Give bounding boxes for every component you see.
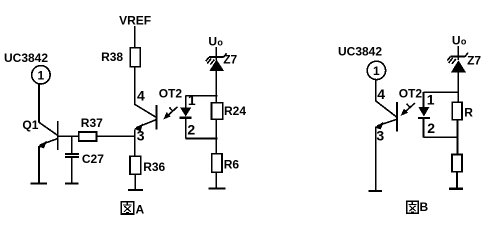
wire R6 to ground xyxy=(215,172,217,188)
svg-text:B: B xyxy=(420,200,429,214)
wire OT2 LED cathode to resistor junction (right bottom) xyxy=(424,136,459,138)
node pin 2 label of OT2 (right) xyxy=(427,120,435,136)
resistor R24 xyxy=(212,103,247,119)
node pin 4 label (left) xyxy=(137,88,145,104)
svg-text:o: o xyxy=(217,38,223,48)
node pin 4 label (right) xyxy=(377,86,385,102)
node pin 2 label of OT2 (left) xyxy=(187,121,195,137)
IC label UC3842 (right) xyxy=(338,45,382,59)
optocoupler OT2 LED (left) xyxy=(180,96,192,139)
resistor R38 xyxy=(101,48,140,67)
wire VREF to R38 xyxy=(134,26,136,48)
wire lower resistor to ground (right) xyxy=(456,172,458,188)
wire OT2 LED cathode to R24/R6 junction (bottom) xyxy=(186,138,218,140)
label Uo (right) xyxy=(452,34,467,48)
label VREF xyxy=(119,14,151,28)
svg-text:2: 2 xyxy=(187,121,195,137)
svg-text:1: 1 xyxy=(373,64,380,78)
resistor (unlabeled, right) xyxy=(452,155,462,172)
svg-text:R: R xyxy=(464,106,473,120)
node pin 1 label of OT2 (right) xyxy=(427,91,435,107)
optocoupler OT2 phototransistor (right) xyxy=(375,101,397,132)
caption 图B xyxy=(407,200,429,214)
wire OT2 LED anode to output rail (top) xyxy=(186,95,218,97)
svg-text:UC3842: UC3842 xyxy=(338,45,382,59)
zener diode Z7 (left) xyxy=(206,47,238,71)
node pin 1 circle (left) xyxy=(32,66,50,84)
ground (R36) xyxy=(128,189,143,191)
wire pin3 node down to R36 xyxy=(134,130,136,157)
svg-text:3: 3 xyxy=(137,127,145,143)
svg-text:U: U xyxy=(452,34,461,48)
wire Q1 emitter to ground xyxy=(38,146,40,183)
node pin 1 label of OT2 (left) xyxy=(188,92,196,108)
ground (phototransistor emitter, right) xyxy=(369,190,383,192)
wire R36 to ground xyxy=(134,174,136,189)
svg-text:UC3842: UC3842 xyxy=(4,51,48,65)
svg-text:R37: R37 xyxy=(81,116,103,130)
node pin 1 circle (right) xyxy=(367,61,385,79)
svg-text:3: 3 xyxy=(376,127,384,143)
resistor R6 xyxy=(212,154,239,173)
svg-text:OT2: OT2 xyxy=(159,86,183,100)
svg-text:1: 1 xyxy=(427,91,435,107)
svg-text:R36: R36 xyxy=(143,160,165,174)
svg-text:R38: R38 xyxy=(101,50,123,64)
node pin 3 label (left) xyxy=(137,127,145,143)
svg-text:1: 1 xyxy=(188,92,196,108)
svg-text:R24: R24 xyxy=(224,104,246,118)
svg-text:Z7: Z7 xyxy=(467,54,481,68)
capacitor C27 xyxy=(65,136,104,166)
IC label UC3842 (left) xyxy=(4,51,48,65)
resistor R xyxy=(452,102,473,120)
svg-text:Q1: Q1 xyxy=(22,118,38,132)
node pin 3 label (right) xyxy=(376,127,384,143)
wire phototransistor emitter to ground (right) xyxy=(375,127,377,191)
svg-text:VREF: VREF xyxy=(119,14,151,28)
svg-text:U: U xyxy=(208,35,217,49)
svg-text:4: 4 xyxy=(137,88,145,104)
svg-text:OT2: OT2 xyxy=(399,86,423,100)
optocoupler OT2 LED (right) xyxy=(418,92,430,137)
wire R37 to pin3 node xyxy=(97,135,135,137)
wire pin1 to phototransistor collector (right) xyxy=(375,80,377,101)
svg-text:A: A xyxy=(136,203,145,217)
light arrow of OT2 (left) xyxy=(163,107,177,120)
optocoupler OT2 label (left) xyxy=(159,86,183,100)
wire R24 to R6 xyxy=(215,119,217,153)
svg-text:1: 1 xyxy=(38,69,45,83)
svg-text:R6: R6 xyxy=(224,158,240,172)
optocoupler OT2 phototransistor (left) xyxy=(134,104,156,131)
transistor Q1 xyxy=(22,118,57,150)
ground (Q1 emitter) xyxy=(30,182,47,184)
wire Q1 base to R37 xyxy=(58,135,79,137)
wire pin1 to Q1 collector xyxy=(38,84,40,122)
caption 图A xyxy=(121,202,144,217)
resistor R36 xyxy=(130,156,166,174)
label Uo (left) xyxy=(208,35,223,49)
svg-text:2: 2 xyxy=(427,120,435,136)
svg-text:o: o xyxy=(461,37,467,47)
ground (C27) xyxy=(65,182,79,184)
ground (R6) xyxy=(209,187,226,189)
svg-text:C27: C27 xyxy=(82,152,104,166)
optocoupler OT2 label (right) xyxy=(399,86,423,100)
zener diode Z7 (right) xyxy=(447,46,481,72)
wire R to lower resistor (right) xyxy=(457,120,459,155)
wire R38 to optocoupler collector, pin 4 xyxy=(134,67,136,104)
ground (right rail) xyxy=(449,188,463,190)
svg-text:4: 4 xyxy=(377,86,385,102)
light arrow of OT2 (right) xyxy=(401,103,415,116)
wire OT2 LED anode to output rail (right top) xyxy=(424,91,459,93)
resistor R37 xyxy=(79,116,104,141)
wire Z7 to resistor R (right) xyxy=(457,72,459,102)
wire C27 to ground xyxy=(71,158,73,183)
wire Z7 to R24 xyxy=(215,71,217,103)
svg-text:Z7: Z7 xyxy=(223,53,237,67)
